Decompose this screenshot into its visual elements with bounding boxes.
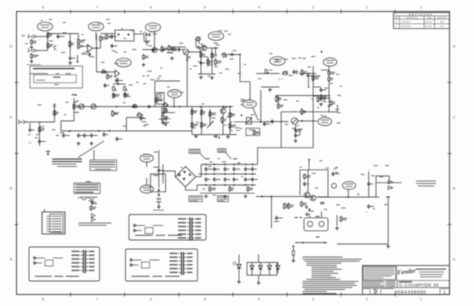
wire rail +16V bbox=[199, 173, 257, 175]
capacitor C35 bbox=[294, 133, 297, 138]
op-amp U1A bbox=[88, 45, 93, 53]
junction bbox=[98, 130, 100, 132]
wire bias rail bbox=[295, 242, 327, 244]
wire to speaker jack 2 bbox=[321, 212, 323, 218]
wire bbox=[222, 107, 224, 109]
wire collector rail bbox=[207, 47, 219, 49]
switch S2 bbox=[201, 44, 207, 48]
ground bbox=[214, 135, 218, 138]
ground bbox=[335, 227, 339, 230]
value labels bbox=[178, 158, 244, 195]
junction bbox=[173, 106, 175, 108]
resistor R53 bbox=[201, 122, 203, 129]
wire down bbox=[270, 197, 272, 229]
wire U2 vcc stub bbox=[121, 28, 123, 30]
resistor R56 bbox=[229, 112, 231, 119]
wire bbox=[126, 117, 144, 119]
relay block K2 bbox=[156, 93, 164, 105]
svg-text:4: 4 bbox=[258, 6, 260, 10]
svg-text:PCN 401: PCN 401 bbox=[402, 21, 411, 23]
resistor R9 bbox=[106, 34, 108, 40]
resistor R18 bbox=[136, 114, 143, 116]
wire bbox=[201, 107, 203, 135]
svg-text:4-21-94: 4-21-94 bbox=[425, 21, 432, 23]
resistor R30 bbox=[282, 73, 289, 75]
potentiometer VR2 bass bbox=[123, 87, 127, 91]
label box bottom right bbox=[218, 196, 229, 202]
label box bottom left bbox=[189, 196, 203, 202]
pin 6 junction bbox=[128, 34, 130, 36]
ground bbox=[157, 205, 161, 208]
svg-text:8: 8 bbox=[42, 297, 44, 301]
ground bbox=[204, 195, 208, 198]
potentiometer VR7 bbox=[207, 121, 214, 128]
wire bbox=[258, 275, 260, 281]
driver stage Q3 bbox=[291, 118, 297, 124]
resistor R64 bbox=[301, 201, 303, 207]
capacitor C34 bbox=[294, 128, 297, 133]
ground bbox=[199, 76, 203, 79]
potentiometer VR8 master bbox=[245, 118, 252, 125]
wire feed from B+ net bbox=[255, 163, 258, 165]
pin 2 junction bbox=[118, 34, 120, 36]
wire diagonal from P-1B bbox=[253, 107, 258, 118]
junction bbox=[186, 59, 188, 61]
resistor R14 bbox=[113, 92, 115, 98]
wire stub bbox=[29, 123, 31, 128]
component bbox=[320, 202, 325, 203]
component with dot bbox=[277, 97, 279, 103]
wire pot rail bbox=[113, 83, 126, 85]
wire feedback drop bbox=[280, 112, 282, 148]
resistor R74 bbox=[209, 186, 211, 192]
junction bbox=[271, 196, 273, 198]
resistor R4 bbox=[47, 42, 49, 49]
bridge rectifier D80-D83 bbox=[175, 167, 195, 187]
svg-text:2: 2 bbox=[366, 297, 368, 301]
wire bbox=[299, 73, 316, 75]
wire bbox=[99, 41, 101, 49]
wire reverb tap down bbox=[186, 55, 188, 107]
potentiometer VR1 treble bbox=[112, 87, 116, 91]
junction bbox=[308, 73, 310, 75]
junction bbox=[200, 106, 202, 108]
capacitor C82 bbox=[213, 167, 216, 172]
ground bbox=[90, 142, 94, 145]
wire branch bbox=[321, 69, 329, 71]
resistor R27 bbox=[54, 110, 56, 117]
transistor Q1 bbox=[201, 45, 206, 50]
op-amp U3A bbox=[164, 108, 168, 114]
title row small text bbox=[363, 281, 398, 286]
resistor R57 bbox=[229, 123, 231, 130]
capacitor C37 bbox=[332, 172, 335, 177]
component mark bbox=[316, 237, 320, 238]
capacitor C26 bbox=[90, 133, 93, 138]
svg-text:W.B.: W.B. bbox=[440, 26, 444, 28]
junction bbox=[222, 106, 224, 108]
wire bbox=[161, 107, 163, 121]
notes text bbox=[303, 257, 362, 295]
wire output bend bbox=[376, 176, 389, 197]
capacitor C40 bbox=[320, 88, 323, 93]
resistor R6 bbox=[77, 38, 79, 44]
capacitor C86 bbox=[251, 167, 254, 172]
LED DS4 bbox=[268, 262, 272, 275]
ground bbox=[112, 94, 116, 97]
op-amp U1B bbox=[115, 70, 120, 77]
note text bbox=[79, 223, 112, 226]
transformer primary wiring box 240V bbox=[126, 249, 198, 281]
svg-text:W.B.: W.B. bbox=[440, 21, 444, 23]
component R65 bbox=[292, 245, 294, 259]
transistor Q2 bbox=[220, 108, 225, 113]
resistor R1 bbox=[47, 32, 49, 39]
svg-text:ECO 4412: ECO 4412 bbox=[402, 26, 412, 28]
callout P-2B bbox=[88, 22, 103, 31]
capacitor C32 bbox=[263, 122, 266, 127]
junction bbox=[54, 104, 56, 106]
relay box K1 bbox=[246, 128, 260, 135]
wire master out bbox=[234, 121, 268, 123]
capacitor C70 bbox=[157, 168, 160, 173]
IC U2 box bbox=[115, 30, 134, 41]
ground bbox=[68, 61, 72, 64]
svg-text:6: 6 bbox=[150, 6, 152, 10]
junction bbox=[179, 106, 181, 108]
wire speaker rail bbox=[318, 196, 379, 198]
callout P-1A bbox=[168, 90, 182, 98]
wire bbox=[258, 255, 260, 263]
resistor R8 bbox=[99, 35, 101, 42]
label box FUSE bbox=[218, 149, 232, 160]
wire U2 out bbox=[134, 33, 144, 35]
capacitor C8 bbox=[115, 78, 118, 83]
svg-text:4: 4 bbox=[258, 297, 260, 301]
resistor R37 bbox=[143, 54, 145, 60]
capacitor C92 bbox=[213, 177, 216, 182]
callout P-3A bbox=[208, 32, 223, 41]
svg-text:7: 7 bbox=[96, 6, 98, 10]
switch jack S1 bbox=[183, 49, 189, 55]
label PRIMARY 120V bbox=[153, 209, 164, 212]
diode D70 bbox=[158, 189, 161, 191]
resistor R24 bbox=[215, 59, 217, 66]
resistor R20 bbox=[171, 49, 178, 51]
wire rail ground bbox=[200, 192, 255, 194]
capacitor C2 bbox=[69, 56, 72, 61]
junction bbox=[215, 47, 217, 49]
capacitor C7 bbox=[161, 48, 166, 51]
wire bbox=[143, 34, 145, 40]
wire bbox=[158, 203, 160, 206]
wire lower rail bbox=[261, 86, 280, 88]
wire PA input rail bbox=[256, 196, 313, 198]
wire stub corner bbox=[308, 159, 310, 170]
component cluster bbox=[337, 215, 347, 226]
bracket mark bbox=[55, 46, 57, 50]
value labels bbox=[21, 30, 157, 57]
wire bbox=[376, 182, 402, 184]
resistor R61 bbox=[277, 103, 279, 109]
callout P-2C bbox=[145, 23, 160, 32]
wire bbox=[313, 86, 321, 88]
capacitor C6 bbox=[144, 41, 150, 45]
wire from tone stage bbox=[155, 81, 180, 107]
transistor Q6 bbox=[152, 48, 157, 53]
ground bbox=[294, 139, 298, 142]
ground bbox=[30, 46, 34, 49]
svg-text:0054336000: 0054336000 bbox=[395, 289, 427, 295]
resistor R2 bbox=[31, 39, 33, 45]
wire bbox=[229, 107, 231, 135]
power transistor Q5 bbox=[310, 195, 316, 201]
wire bottom rail bbox=[192, 134, 237, 136]
ground bbox=[123, 94, 127, 97]
capacitor C38 bbox=[367, 182, 370, 187]
ground bbox=[164, 123, 168, 126]
svg-text:1: 1 bbox=[420, 6, 422, 10]
value labels bbox=[283, 99, 340, 130]
resistor R42 bbox=[320, 94, 322, 100]
callout P-4B bbox=[140, 185, 153, 193]
wire bbox=[328, 66, 330, 70]
wire bbox=[209, 109, 211, 126]
junction bbox=[149, 106, 151, 108]
capacitor C96 bbox=[251, 177, 254, 182]
resistor R19 bbox=[156, 97, 158, 103]
ground bbox=[77, 142, 81, 145]
resistor R40 bbox=[328, 70, 330, 76]
capacitor C95 bbox=[244, 177, 247, 182]
wire to coupling bbox=[221, 54, 240, 56]
component dashes bbox=[295, 217, 303, 218]
resistor R55 bbox=[221, 117, 223, 124]
diode D60 bbox=[305, 206, 308, 208]
resistor R63 bbox=[288, 203, 290, 210]
resistor R21 bbox=[195, 38, 201, 40]
svg-text:7: 7 bbox=[96, 297, 98, 301]
wire bbox=[73, 98, 75, 112]
diode D61 bbox=[308, 209, 311, 211]
capacitor C36 pair bbox=[274, 216, 283, 222]
junction bbox=[324, 242, 326, 244]
capacitor C93 bbox=[224, 177, 227, 182]
ground bbox=[244, 195, 248, 198]
callout P-2A input stage bbox=[37, 22, 52, 31]
resistor R51 bbox=[191, 122, 193, 129]
resistor R13 bbox=[161, 46, 163, 53]
svg-text:10-7-94: 10-7-94 bbox=[425, 26, 432, 28]
wire bbox=[191, 107, 193, 135]
wire hook bbox=[295, 131, 300, 135]
capacitor C85 bbox=[244, 167, 247, 172]
capacitor C20 bbox=[178, 47, 181, 52]
svg-text:C: C bbox=[10, 115, 13, 119]
wire B+ net bbox=[258, 66, 314, 164]
capacitor C13 bbox=[165, 116, 168, 121]
wire bbox=[388, 176, 390, 181]
resistor R12 bbox=[101, 71, 108, 73]
address text bbox=[416, 269, 446, 278]
value labels bbox=[258, 56, 315, 88]
svg-text:D: D bbox=[374, 290, 378, 296]
wire reverb send bbox=[256, 73, 280, 75]
ground bbox=[142, 63, 146, 66]
wire bend bbox=[329, 108, 338, 112]
power transistor Q4 bbox=[304, 192, 310, 198]
LED array box bbox=[247, 262, 277, 275]
component marks bbox=[206, 158, 238, 159]
svg-text:2: 2 bbox=[366, 6, 368, 10]
component bbox=[386, 197, 390, 245]
diode D71 bbox=[158, 194, 161, 196]
resistor R50 bbox=[191, 109, 193, 116]
junction bbox=[47, 36, 49, 38]
callout P-3B bbox=[270, 57, 285, 66]
ground bbox=[194, 135, 198, 138]
value labels bbox=[218, 30, 231, 34]
resistor R28 bbox=[73, 103, 75, 110]
wire drop bbox=[39, 122, 41, 146]
diode D1 pair bbox=[145, 33, 151, 35]
wire bbox=[211, 48, 213, 74]
resistor R36 bbox=[162, 114, 164, 120]
component mark bbox=[314, 96, 319, 97]
resistor R66 bbox=[304, 173, 306, 179]
wire bbox=[207, 57, 209, 67]
callout speaker bbox=[342, 182, 355, 190]
wire aux bbox=[26, 121, 55, 123]
value labels bbox=[269, 53, 288, 60]
resistor R5 bbox=[69, 40, 71, 47]
ground bbox=[226, 135, 230, 138]
svg-text:D: D bbox=[10, 44, 13, 48]
input jack J2 bbox=[29, 49, 37, 53]
value labels bbox=[300, 160, 346, 211]
capacitor C3 angled pair bbox=[86, 52, 92, 54]
callout P-2D bbox=[116, 58, 131, 67]
wire rail +40V bbox=[201, 163, 254, 165]
thermal breaker CB1 bbox=[332, 183, 337, 188]
resistor R52 bbox=[201, 109, 203, 116]
wire J2 bbox=[36, 50, 48, 52]
junction mark bbox=[68, 130, 71, 132]
value labels bbox=[179, 43, 246, 77]
wire bbox=[368, 172, 370, 198]
svg-text:C29: C29 bbox=[28, 143, 31, 145]
value labels bbox=[192, 99, 261, 137]
wire stub bbox=[95, 32, 97, 40]
ground bbox=[237, 280, 241, 283]
plug arrow P2 bbox=[388, 186, 392, 189]
wire J1 bbox=[36, 36, 48, 38]
capacitor C83 bbox=[224, 167, 227, 172]
wire bbox=[308, 74, 310, 88]
junction bbox=[229, 106, 231, 108]
ground bbox=[305, 213, 309, 216]
ground bbox=[268, 88, 272, 91]
capacitor C43 bbox=[196, 46, 201, 49]
capacitor C10 bbox=[146, 105, 151, 108]
wire up-over bend bbox=[196, 41, 199, 48]
wire to U1A bbox=[82, 45, 88, 47]
ground bbox=[319, 103, 323, 106]
volume pot VR9 bbox=[162, 108, 168, 113]
svg-text:C: C bbox=[453, 115, 456, 119]
resistor R17 bbox=[112, 110, 114, 117]
svg-text:C-CHAMPION 30: C-CHAMPION 30 bbox=[399, 283, 439, 288]
capacitor C21 bbox=[200, 61, 203, 66]
resistor R25 bbox=[207, 59, 209, 66]
wire drop bbox=[260, 90, 262, 122]
wire down-arrow above table bbox=[76, 55, 78, 63]
value labels bbox=[167, 87, 184, 93]
wire bbox=[162, 164, 164, 183]
wire arrow above bbox=[321, 51, 323, 53]
wire U1B out down bbox=[117, 78, 119, 85]
capacitor C94 bbox=[233, 177, 236, 182]
capacitor C23 bbox=[62, 133, 65, 138]
callout P-4A bbox=[140, 154, 153, 162]
capacitor C24 bbox=[77, 133, 80, 138]
value labels bbox=[357, 165, 389, 209]
wire emitter rail bbox=[198, 73, 216, 75]
approval signature bbox=[78, 197, 97, 204]
svg-text:5: 5 bbox=[204, 6, 206, 10]
junction bbox=[218, 137, 220, 139]
wire bbox=[328, 81, 330, 103]
capacitor C12 bbox=[162, 120, 165, 125]
capacitor C4 bbox=[111, 34, 114, 39]
wire to drive stage bbox=[170, 46, 186, 48]
wire bbox=[295, 125, 297, 139]
title label bbox=[399, 281, 412, 282]
component bbox=[316, 216, 320, 217]
junction bbox=[260, 121, 262, 123]
wire bbox=[298, 120, 317, 122]
transformer primary wiring box 100/120V bbox=[29, 247, 100, 281]
resistor R7 bbox=[77, 43, 79, 49]
svg-text:3: 3 bbox=[312, 297, 314, 301]
value labels bbox=[41, 19, 66, 23]
capacitor C44 bbox=[303, 182, 306, 187]
component chain bbox=[81, 197, 98, 222]
wire terminator arrow bbox=[46, 150, 51, 156]
junction bbox=[301, 120, 303, 122]
wire bbox=[222, 114, 224, 135]
revisions table bbox=[393, 12, 449, 28]
title block bbox=[363, 266, 450, 295]
wire riser bbox=[337, 105, 339, 112]
wire join bbox=[47, 34, 49, 51]
resistor R41 bbox=[328, 76, 330, 82]
potentiometer VR4 reverb bbox=[265, 70, 269, 74]
capacitor C42 bbox=[116, 137, 119, 142]
capacitor C9 bbox=[104, 83, 107, 88]
callout P-3D bbox=[318, 117, 332, 125]
resistor R75 bbox=[229, 186, 231, 192]
capacitor C81 bbox=[205, 167, 208, 172]
wire bbox=[146, 178, 148, 185]
junction bbox=[116, 106, 118, 108]
resistor R33 bbox=[276, 96, 278, 103]
value labels bbox=[143, 152, 158, 155]
wire from L1 up bbox=[93, 150, 95, 160]
wire upper rail bbox=[281, 111, 337, 113]
capacitor C25 bbox=[83, 133, 86, 138]
wire bbox=[173, 98, 175, 107]
